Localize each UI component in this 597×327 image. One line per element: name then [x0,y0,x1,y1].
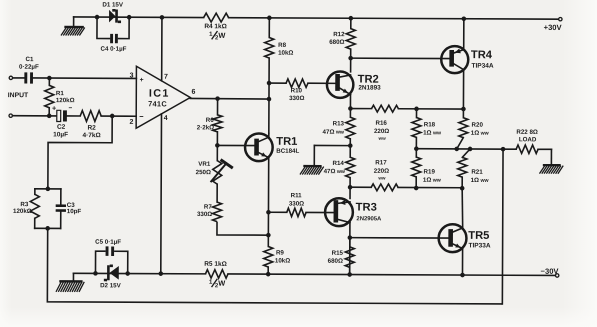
svg-text:330Ω: 330Ω [289,95,304,102]
svg-text:D1 15V: D1 15V [102,2,124,9]
svg-text:−: − [139,112,144,121]
svg-text:R11: R11 [291,192,303,199]
svg-text:7: 7 [164,74,168,81]
svg-text:47Ω ww: 47Ω ww [324,168,346,175]
svg-text:−: − [68,105,72,112]
svg-text:4: 4 [164,115,168,122]
svg-text:INPUT: INPUT [8,92,29,99]
svg-text:R1: R1 [56,90,65,97]
svg-text:3: 3 [130,72,134,79]
svg-text:47Ω ww: 47Ω ww [323,129,345,136]
svg-text:−30V: −30V [541,267,560,276]
svg-text:10pF: 10pF [67,208,82,215]
svg-text:220Ω: 220Ω [374,168,389,175]
svg-text:R19: R19 [424,168,436,175]
svg-text:VR1: VR1 [198,161,211,168]
svg-text:ww: ww [378,136,387,141]
svg-text:W: W [218,31,225,40]
svg-text:R13: R13 [333,120,345,127]
svg-text:R16: R16 [375,120,387,127]
svg-text:R7: R7 [204,204,213,211]
svg-text:TR3: TR3 [356,202,377,214]
svg-text:R18: R18 [424,121,436,128]
svg-text:TR5: TR5 [468,230,489,242]
svg-text:1Ω ww: 1Ω ww [423,130,442,137]
svg-text:+30V: +30V [544,23,563,32]
svg-text:BC184L: BC184L [276,148,299,155]
svg-text:1Ω ww: 1Ω ww [423,177,442,184]
svg-text:ww: ww [377,176,386,181]
svg-text:R20: R20 [472,122,484,129]
svg-text:R17: R17 [375,159,387,166]
svg-text:TR4: TR4 [471,49,493,61]
svg-text:R9: R9 [276,249,285,256]
svg-text:R5 1kΩ: R5 1kΩ [204,261,227,268]
svg-text:741C: 741C [148,99,167,108]
svg-text:2N2905A: 2N2905A [356,216,382,222]
svg-text:250Ω: 250Ω [196,169,211,176]
svg-text:IC1: IC1 [149,88,170,100]
svg-text:R8: R8 [278,42,287,49]
svg-text:120kΩ: 120kΩ [13,208,32,215]
svg-text:R12: R12 [333,31,345,38]
svg-text:TR1: TR1 [276,136,297,148]
svg-text:W: W [218,279,225,288]
svg-text:C4 0·1µF: C4 0·1µF [101,46,127,53]
svg-text:R21: R21 [471,169,483,176]
svg-text:R14: R14 [333,160,345,167]
svg-text:220Ω: 220Ω [374,128,389,135]
svg-text:330Ω: 330Ω [197,211,212,218]
svg-text:TIP34A: TIP34A [472,63,494,70]
svg-text:10µF: 10µF [53,131,68,138]
svg-text:4·7kΩ: 4·7kΩ [82,132,100,139]
svg-text:C2: C2 [57,124,66,131]
svg-text:680Ω: 680Ω [329,39,344,46]
svg-text:R10: R10 [291,87,303,94]
svg-text:+: + [52,103,56,112]
svg-text:R22 8Ω: R22 8Ω [516,129,538,136]
svg-text:2·2kΩ: 2·2kΩ [197,124,214,131]
svg-text:1Ω ww: 1Ω ww [471,177,490,184]
svg-text:0·22µF: 0·22µF [19,64,39,71]
svg-text:R2: R2 [87,125,96,132]
svg-text:120kΩ: 120kΩ [56,97,75,104]
svg-text:2N1893: 2N1893 [358,84,381,91]
svg-text:LOAD: LOAD [519,136,537,143]
svg-text:2: 2 [129,119,133,126]
svg-text:D2 15V: D2 15V [100,282,122,289]
svg-text:TIP33A: TIP33A [468,242,490,249]
svg-text:680Ω: 680Ω [328,258,343,265]
svg-text:6: 6 [191,89,195,96]
svg-text:C5 0·1µF: C5 0·1µF [95,239,121,246]
svg-text:1Ω ww: 1Ω ww [471,130,490,137]
svg-text:+: + [140,77,144,84]
svg-text:C1: C1 [25,56,34,63]
svg-text:R6: R6 [206,117,215,124]
svg-text:R4 1kΩ: R4 1kΩ [204,23,227,30]
svg-text:R15: R15 [332,250,344,257]
svg-text:10kΩ: 10kΩ [275,257,290,264]
svg-text:10kΩ: 10kΩ [278,50,293,57]
svg-text:330Ω: 330Ω [289,200,304,207]
